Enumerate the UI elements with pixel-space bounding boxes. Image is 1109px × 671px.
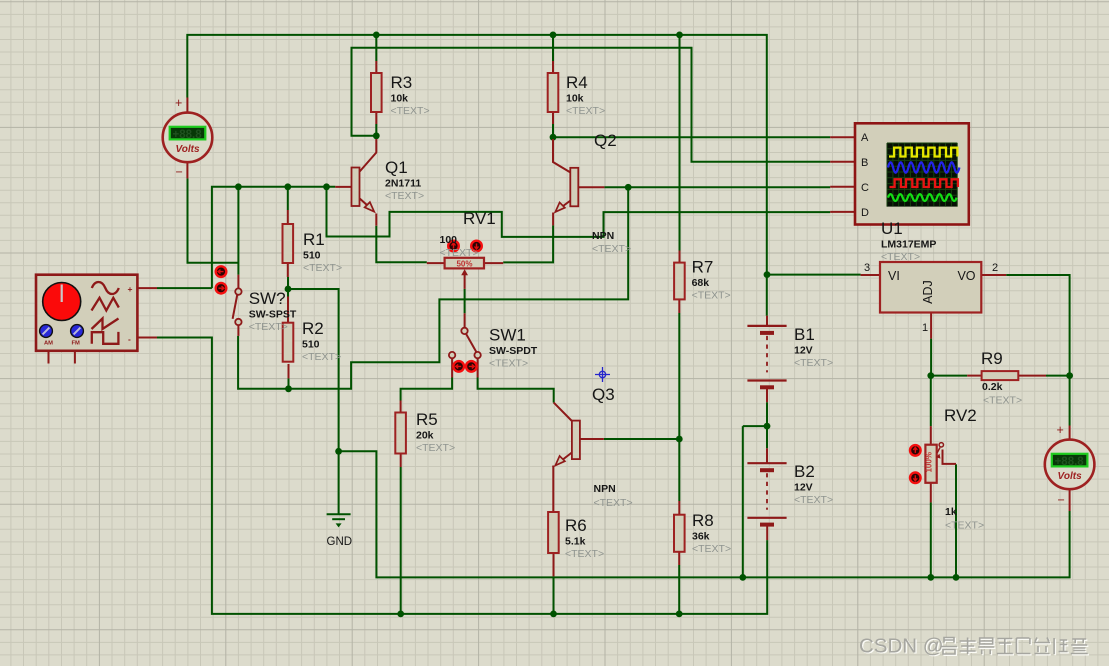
svg-text:510: 510 — [303, 250, 321, 262]
svg-text:A: A — [861, 132, 869, 144]
svg-text:SW1: SW1 — [489, 326, 526, 345]
svg-text:<TEXT>: <TEXT> — [303, 262, 342, 274]
svg-text:D: D — [861, 207, 869, 219]
svg-text:<TEXT>: <TEXT> — [416, 442, 455, 454]
svg-text:<TEXT>: <TEXT> — [945, 520, 984, 532]
svg-text:<TEXT>: <TEXT> — [983, 395, 1022, 407]
svg-text:2N1711: 2N1711 — [385, 178, 421, 190]
svg-text:C: C — [861, 182, 869, 194]
svg-text:VO: VO — [957, 269, 975, 283]
svg-text:<TEXT>: <TEXT> — [881, 251, 920, 263]
svg-text:Volts: Volts — [175, 144, 200, 155]
svg-text:Q3: Q3 — [592, 385, 615, 404]
svg-text:ADJ: ADJ — [921, 280, 935, 304]
svg-text:FM: FM — [72, 341, 81, 347]
svg-text:AM: AM — [44, 341, 53, 347]
svg-text:12V: 12V — [794, 482, 813, 494]
svg-text:NPN: NPN — [592, 230, 614, 242]
svg-text:R4: R4 — [566, 73, 588, 92]
svg-text:+: + — [128, 284, 133, 294]
svg-text:10k: 10k — [566, 93, 584, 105]
svg-text:510: 510 — [302, 339, 320, 351]
svg-text:<TEXT>: <TEXT> — [592, 243, 631, 255]
svg-text:R5: R5 — [416, 410, 438, 429]
svg-text:<TEXT>: <TEXT> — [489, 358, 528, 370]
svg-text:100%: 100% — [925, 452, 934, 472]
svg-text:B: B — [861, 157, 868, 169]
svg-text:<TEXT>: <TEXT> — [391, 105, 430, 117]
svg-text:Q1: Q1 — [385, 158, 408, 177]
svg-text:+88.8: +88.8 — [173, 129, 203, 141]
svg-text:<TEXT>: <TEXT> — [440, 247, 479, 259]
svg-text:<TEXT>: <TEXT> — [794, 494, 833, 506]
svg-text:<TEXT>: <TEXT> — [692, 543, 731, 555]
svg-text:−: − — [1058, 493, 1065, 507]
svg-text:3: 3 — [864, 262, 870, 274]
svg-text:RV2: RV2 — [944, 406, 977, 425]
svg-text:68k: 68k — [692, 277, 710, 289]
svg-text:<TEXT>: <TEXT> — [566, 105, 605, 117]
svg-text:−: − — [176, 165, 183, 179]
svg-text:<TEXT>: <TEXT> — [692, 289, 731, 301]
svg-text:SW?: SW? — [249, 289, 286, 308]
svg-text:B1: B1 — [794, 325, 815, 344]
svg-text:0.2k: 0.2k — [982, 381, 1003, 393]
svg-text:RV1: RV1 — [463, 209, 496, 228]
svg-text:100: 100 — [440, 234, 458, 246]
svg-text:20k: 20k — [416, 430, 434, 442]
svg-text:R3: R3 — [391, 73, 413, 92]
svg-text:1: 1 — [922, 322, 928, 334]
svg-text:R1: R1 — [303, 230, 325, 249]
svg-text:+: + — [175, 96, 182, 110]
svg-text:<TEXT>: <TEXT> — [302, 351, 341, 363]
svg-text:SW-SPST: SW-SPST — [249, 309, 297, 321]
svg-text:12V: 12V — [794, 345, 813, 357]
svg-text:LM317EMP: LM317EMP — [881, 239, 936, 251]
svg-text:VI: VI — [888, 269, 900, 283]
svg-text:36k: 36k — [692, 531, 710, 543]
svg-text:<TEXT>: <TEXT> — [249, 321, 288, 333]
svg-text:1k: 1k — [945, 506, 957, 518]
svg-text:+88.8: +88.8 — [1055, 456, 1085, 468]
svg-text:50%: 50% — [456, 260, 472, 269]
svg-text:R6: R6 — [565, 516, 587, 535]
svg-text:U1: U1 — [881, 219, 903, 238]
svg-text:Volts: Volts — [1058, 471, 1083, 482]
svg-text:10k: 10k — [391, 93, 409, 105]
svg-text:2: 2 — [992, 262, 998, 274]
svg-text:R7: R7 — [692, 257, 714, 276]
svg-text:+: + — [1057, 423, 1064, 437]
svg-text:R9: R9 — [981, 349, 1003, 368]
svg-text:CSDN @: CSDN @ — [859, 635, 944, 658]
svg-text:Q2: Q2 — [594, 131, 617, 150]
svg-text:5.1k: 5.1k — [565, 536, 586, 548]
svg-text:SW-SPDT: SW-SPDT — [489, 345, 538, 357]
svg-text:<TEXT>: <TEXT> — [565, 548, 604, 560]
svg-text:R2: R2 — [302, 319, 324, 338]
svg-text:-: - — [128, 334, 131, 344]
svg-text:R8: R8 — [692, 511, 714, 530]
svg-text:NPN: NPN — [594, 483, 616, 495]
svg-text:<TEXT>: <TEXT> — [794, 357, 833, 369]
svg-text:<TEXT>: <TEXT> — [594, 497, 633, 509]
svg-text:B2: B2 — [794, 462, 815, 481]
svg-text:GND: GND — [327, 536, 353, 548]
svg-text:<TEXT>: <TEXT> — [385, 190, 424, 202]
